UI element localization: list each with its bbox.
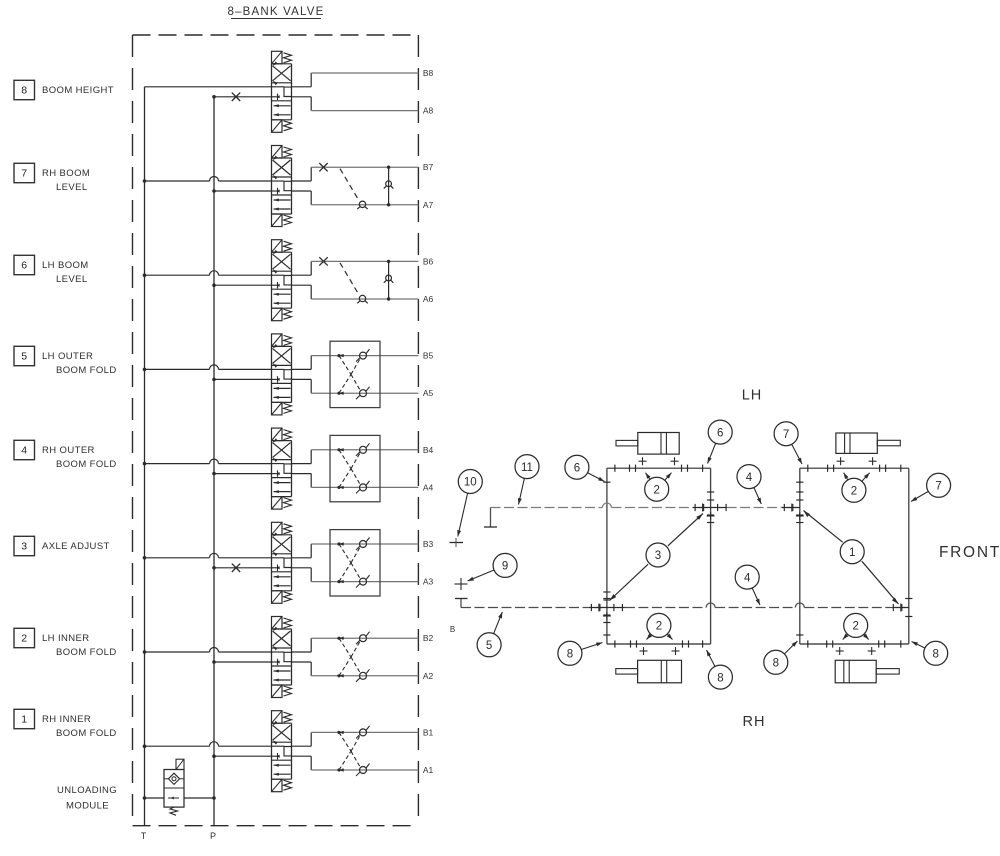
svg-text:5: 5 <box>21 351 27 363</box>
svg-text:A5: A5 <box>423 388 434 398</box>
svg-text:LH OUTER: LH OUTER <box>42 351 93 362</box>
svg-text:BOOM HEIGHT: BOOM HEIGHT <box>42 85 114 96</box>
svg-text:A1: A1 <box>423 765 434 775</box>
svg-text:T: T <box>141 831 147 841</box>
svg-text:B5: B5 <box>423 351 434 361</box>
svg-text:BOOM FOLD: BOOM FOLD <box>56 365 117 376</box>
svg-text:LH BOOM: LH BOOM <box>42 260 89 271</box>
svg-text:A4: A4 <box>423 482 434 492</box>
svg-text:LH INNER: LH INNER <box>42 633 90 644</box>
svg-text:B3: B3 <box>423 539 434 549</box>
svg-text:7: 7 <box>21 168 27 180</box>
svg-text:4: 4 <box>746 472 753 484</box>
svg-text:3: 3 <box>21 541 27 553</box>
svg-text:5: 5 <box>486 640 492 652</box>
svg-text:B6: B6 <box>423 256 434 266</box>
svg-text:B: B <box>450 625 455 634</box>
svg-text:FRONT: FRONT <box>939 544 1000 561</box>
svg-text:2: 2 <box>852 621 858 633</box>
svg-text:RH: RH <box>743 714 766 730</box>
svg-text:6: 6 <box>574 462 580 474</box>
svg-text:8: 8 <box>932 649 938 661</box>
svg-text:8: 8 <box>717 672 723 684</box>
svg-text:LH: LH <box>742 388 763 404</box>
svg-text:8: 8 <box>21 85 27 97</box>
svg-text:7: 7 <box>935 481 941 493</box>
svg-text:A3: A3 <box>423 577 434 587</box>
svg-text:B8: B8 <box>423 68 434 78</box>
svg-text:A6: A6 <box>423 294 434 304</box>
svg-text:A2: A2 <box>423 671 434 681</box>
svg-text:8: 8 <box>567 649 573 661</box>
svg-text:MODULE: MODULE <box>66 801 109 812</box>
svg-text:2: 2 <box>656 621 662 633</box>
svg-text:AXLE ADJUST: AXLE ADJUST <box>42 541 110 552</box>
svg-text:8–BANK VALVE: 8–BANK VALVE <box>227 6 324 18</box>
svg-text:RH OUTER: RH OUTER <box>42 445 95 456</box>
svg-text:BOOM FOLD: BOOM FOLD <box>56 728 117 739</box>
svg-text:B1: B1 <box>423 727 434 737</box>
svg-text:BOOM FOLD: BOOM FOLD <box>56 647 117 658</box>
svg-text:6: 6 <box>21 260 27 272</box>
svg-text:RH BOOM: RH BOOM <box>42 168 90 179</box>
svg-text:RH INNER: RH INNER <box>42 714 91 725</box>
svg-text:2: 2 <box>851 486 857 498</box>
svg-text:6: 6 <box>717 427 723 439</box>
svg-text:B4: B4 <box>423 445 434 455</box>
svg-text:10: 10 <box>464 477 477 489</box>
svg-text:4: 4 <box>21 445 27 457</box>
svg-text:BOOM FOLD: BOOM FOLD <box>56 459 117 470</box>
svg-text:7: 7 <box>783 429 789 441</box>
svg-text:B2: B2 <box>423 633 434 643</box>
svg-text:P: P <box>210 831 216 841</box>
svg-text:LEVEL: LEVEL <box>56 274 88 285</box>
svg-text:2: 2 <box>653 484 659 496</box>
svg-text:A8: A8 <box>423 106 434 116</box>
svg-text:B7: B7 <box>423 162 434 172</box>
svg-text:LEVEL: LEVEL <box>56 182 88 193</box>
svg-text:UNLOADING: UNLOADING <box>57 785 117 796</box>
svg-text:1: 1 <box>849 547 855 559</box>
svg-text:8: 8 <box>773 658 779 670</box>
svg-text:3: 3 <box>655 550 661 562</box>
svg-text:9: 9 <box>502 561 508 573</box>
svg-text:1: 1 <box>21 714 27 726</box>
svg-text:4: 4 <box>744 572 751 584</box>
svg-text:11: 11 <box>521 462 533 474</box>
svg-text:2: 2 <box>21 633 27 645</box>
svg-text:A7: A7 <box>423 200 434 210</box>
